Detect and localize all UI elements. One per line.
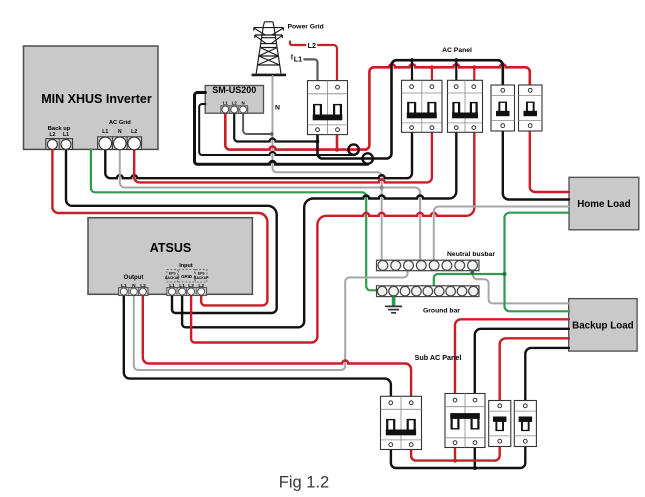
- svg-text:L2: L2: [198, 283, 204, 289]
- svg-text:Home Load: Home Load: [577, 199, 630, 210]
- svg-text:L2: L2: [131, 129, 137, 135]
- svg-text:L1: L1: [169, 283, 175, 289]
- svg-text:AC Panel: AC Panel: [442, 47, 472, 54]
- svg-text:BACKUP: BACKUP: [165, 276, 180, 280]
- svg-text:L2: L2: [308, 41, 316, 50]
- svg-text:L1: L1: [223, 100, 229, 105]
- svg-text:SM-US200: SM-US200: [212, 85, 256, 95]
- svg-text:L2: L2: [232, 100, 238, 105]
- svg-text:N: N: [132, 283, 136, 289]
- svg-text:GRID: GRID: [181, 274, 192, 279]
- svg-text:N: N: [242, 100, 245, 105]
- svg-text:L1: L1: [121, 283, 127, 289]
- svg-text:Sub AC Panel: Sub AC Panel: [415, 353, 462, 362]
- svg-text:Backup Load: Backup Load: [572, 320, 634, 331]
- svg-text:N: N: [118, 129, 122, 135]
- svg-text:Neutral busbar: Neutral busbar: [447, 251, 495, 258]
- svg-text:MIN XHUS Inverter: MIN XHUS Inverter: [41, 92, 152, 106]
- svg-text:L2: L2: [140, 283, 146, 289]
- svg-text:N: N: [275, 105, 280, 112]
- svg-text:ATSUS: ATSUS: [150, 241, 191, 255]
- svg-text:L2: L2: [49, 132, 55, 138]
- svg-text:L1: L1: [294, 55, 302, 64]
- svg-text:Input: Input: [179, 263, 193, 269]
- svg-text:Power Grid: Power Grid: [288, 24, 324, 31]
- svg-text:L1: L1: [179, 283, 185, 289]
- svg-text:BACKUP: BACKUP: [194, 276, 209, 280]
- svg-text:Ground bar: Ground bar: [423, 307, 460, 314]
- svg-text:AC Grid: AC Grid: [109, 120, 131, 126]
- svg-text:Fig 1.2: Fig 1.2: [279, 474, 329, 492]
- svg-text:Output: Output: [124, 275, 144, 281]
- svg-text:L1: L1: [63, 132, 69, 138]
- svg-text:L1: L1: [102, 129, 108, 135]
- svg-text:L2: L2: [188, 283, 194, 289]
